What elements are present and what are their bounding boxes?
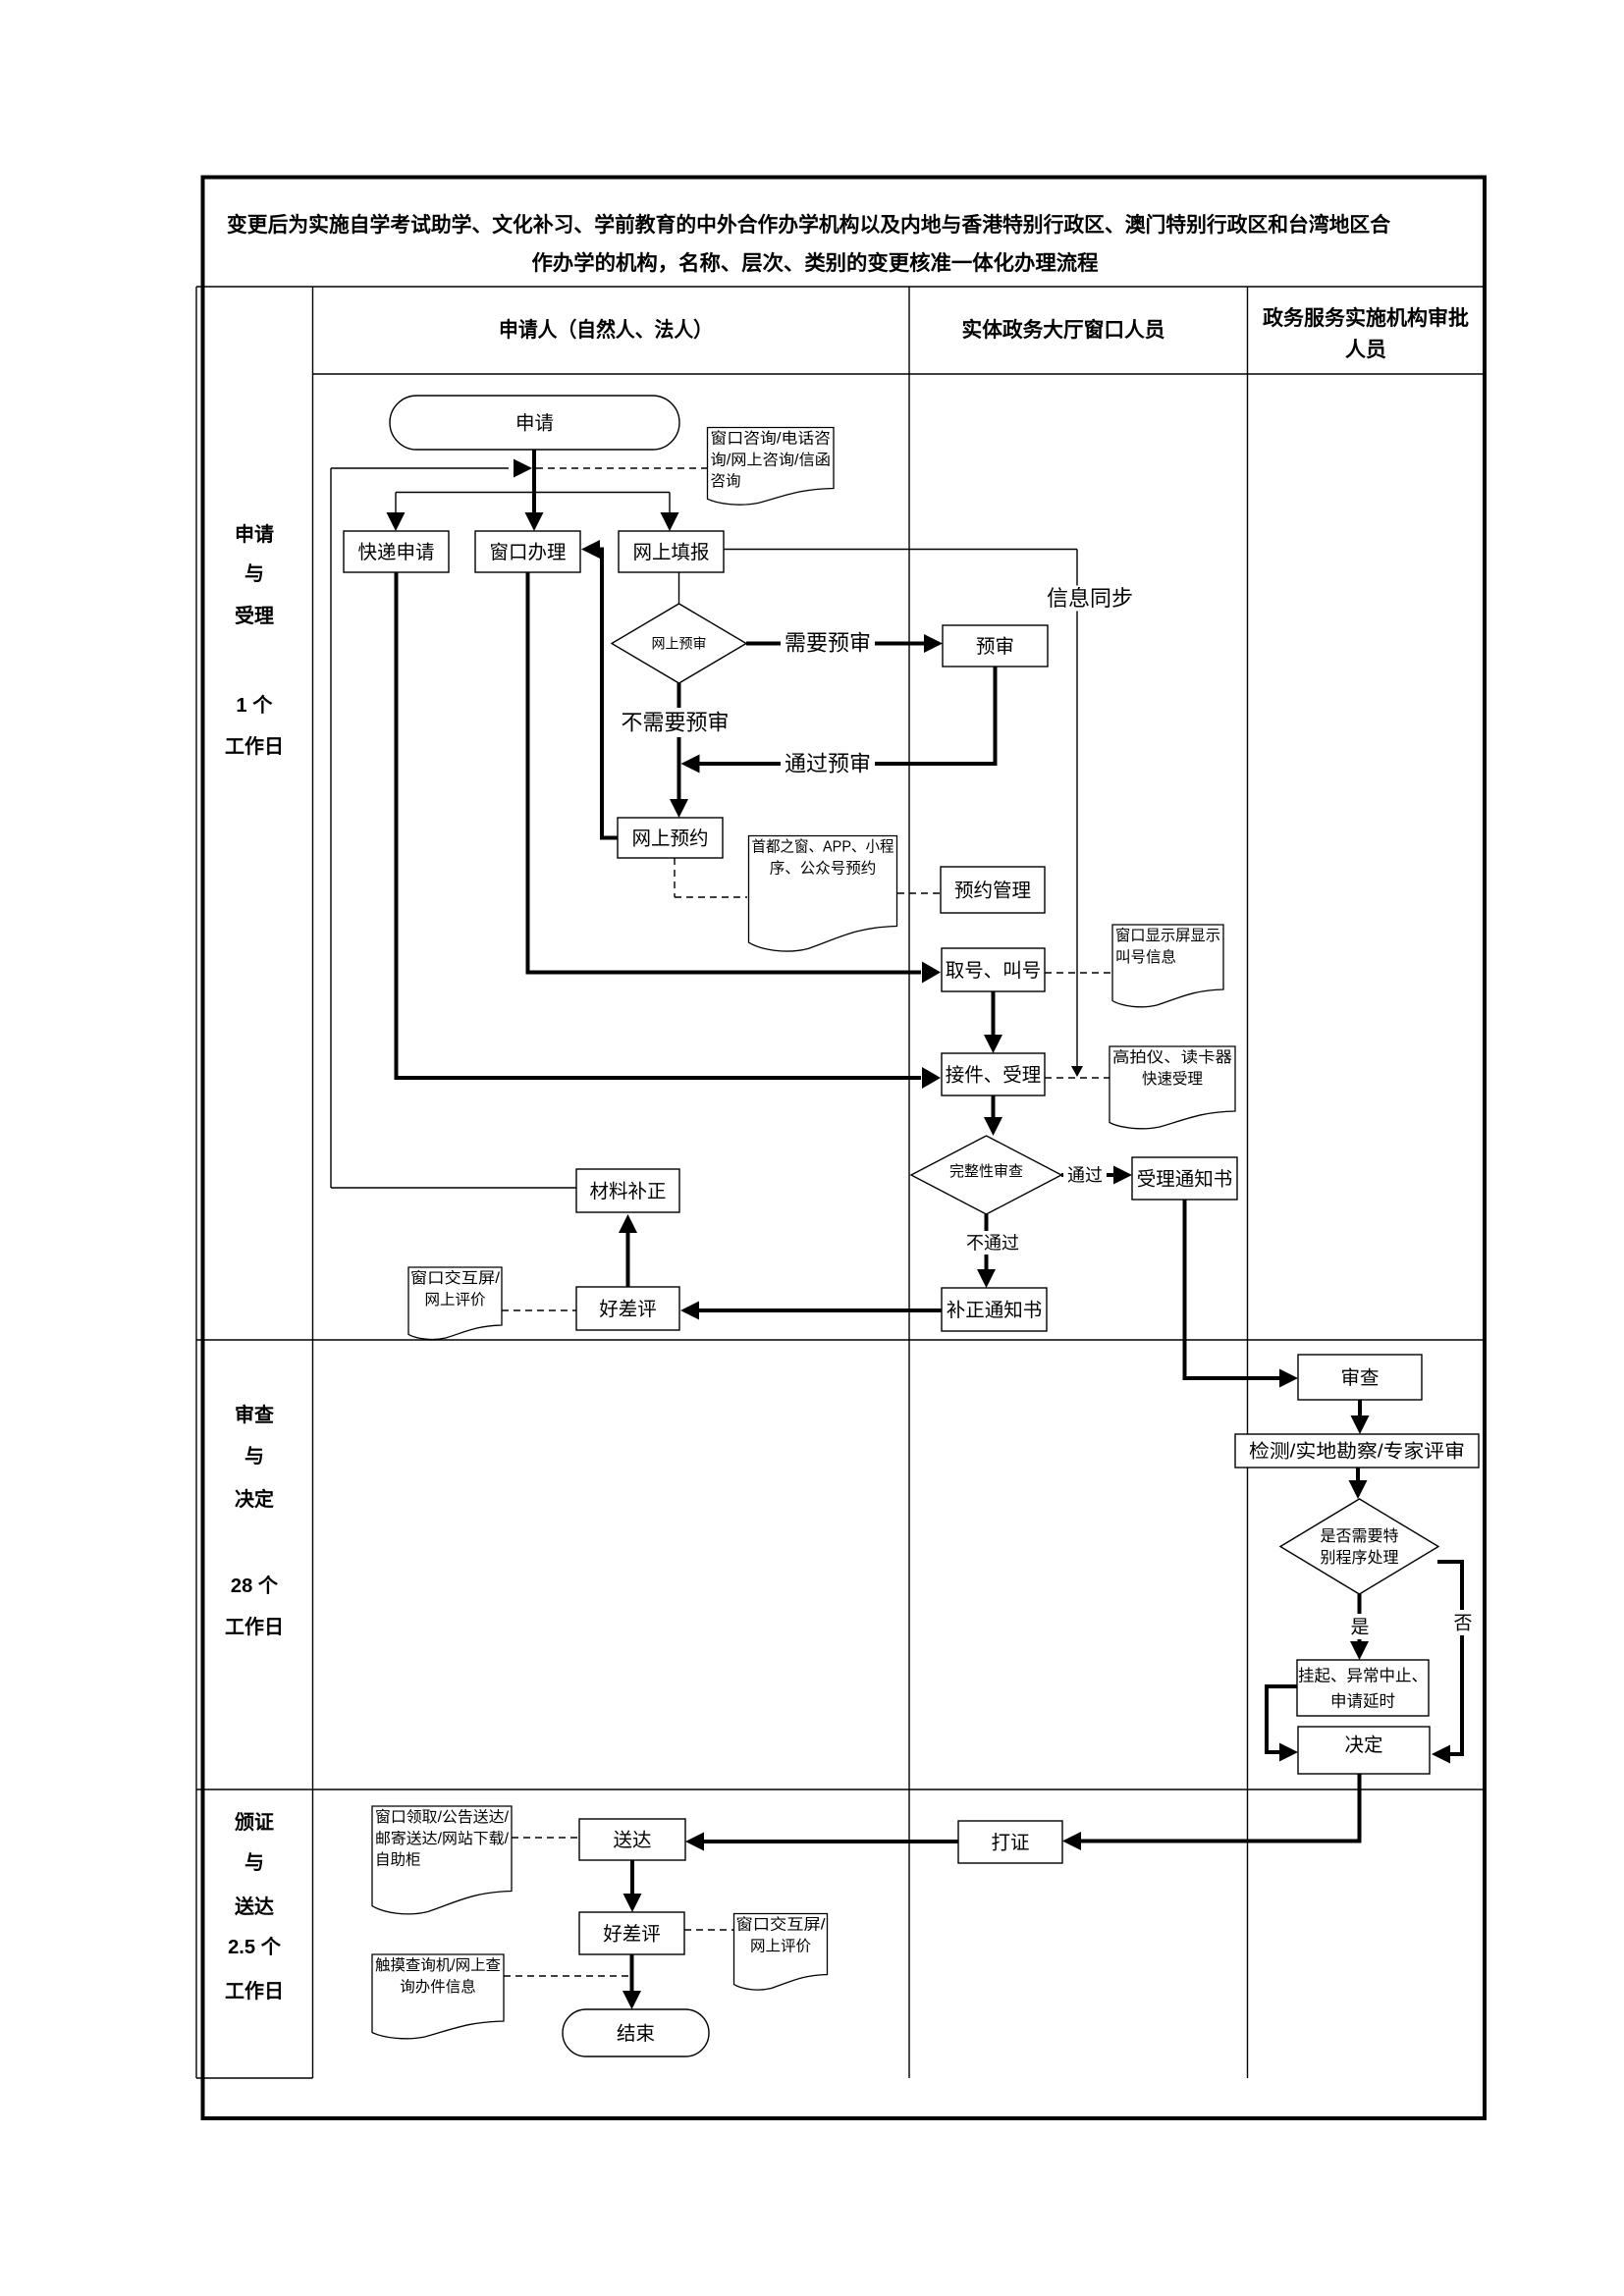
svg-text:窗口显示屏显示: 窗口显示屏显示 [1115,927,1220,944]
svg-text:申请延时: 申请延时 [1330,1691,1395,1710]
process 材料补正 [576,1169,679,1212]
wire: main thick line 申请 -> 窗口办理 [532,450,536,513]
wire: dashed consult line to note [536,467,707,469]
edge label 是 [1348,1614,1372,1639]
wire: dashed 好差评 -> evaluation note [502,1309,576,1311]
svg-text:取号、叫号: 取号、叫号 [946,960,1042,982]
wire: 完整性审查 -> 受理通知书 (通过) [1061,1173,1113,1177]
svg-text:实体政务大厅窗口人员: 实体政务大厅窗口人员 [962,318,1165,342]
svg-text:送达: 送达 [614,1830,652,1851]
svg-text:首都之窗、APP、小程: 首都之窗、APP、小程 [752,838,894,856]
svg-text:触摸查询机/网上查: 触摸查询机/网上查 [375,1956,501,1974]
note 触摸查询机/网上查询办件信息 [372,1954,504,2039]
wire: 送达 -> 好差评 (thick) [630,1860,634,1895]
wire: 挂起 left loop -> 决定 [1267,1686,1297,1752]
svg-text:工作日: 工作日 [225,1615,284,1638]
process 受理通知书 [1132,1157,1237,1200]
svg-text:好差评: 好差评 [599,1299,657,1320]
wire: dashed 网上预约 -> booking note [674,858,676,897]
process 好差评 (acceptance stage) [576,1287,679,1330]
svg-text:通过: 通过 [1067,1165,1103,1185]
wire: 网上预约 -> 窗口办理 (thick elbow with arrow) [599,550,618,838]
decision 完整性审查 [911,1136,1061,1214]
svg-text:咨询: 咨询 [711,472,741,490]
svg-text:快递申请: 快递申请 [358,542,435,563]
wire: dashed 好差评 -> evaluation note 2 [684,1929,733,1931]
process 网上预约 [618,818,723,858]
wire: loop from 材料补正 up-left and into main line [331,467,509,469]
svg-text:快速受理: 快速受理 [1142,1070,1203,1088]
process 补正通知书 [942,1288,1047,1331]
note 窗口交互屏/网上评价 (acceptance) [408,1267,502,1339]
process 决定 [1298,1727,1430,1774]
wire: 网上预审 -> 网上预约 (不需要预审) [677,683,681,800]
svg-text:28 个: 28 个 [231,1575,279,1597]
process 预审 [943,625,1048,667]
svg-text:序、公众号预约: 序、公众号预约 [770,859,877,877]
svg-text:作办学的机构，名称、层次、类别的变更核准一体化办理流程: 作办学的机构，名称、层次、类别的变更核准一体化办理流程 [532,251,1099,275]
svg-text:补正通知书: 补正通知书 [947,1300,1043,1321]
process 审查 [1298,1355,1422,1400]
svg-text:与: 与 [244,1445,264,1468]
edge label 需要预审 [781,629,875,657]
process 预约管理 [941,867,1045,913]
svg-text:窗口办理: 窗口办理 [490,542,567,563]
svg-text:材料补正: 材料补正 [590,1181,667,1202]
note 窗口领取/公告送达/邮寄送达/网站下载/自助柜 [372,1806,512,1914]
svg-text:人员: 人员 [1345,339,1386,361]
svg-text:挂起、异常中止、: 挂起、异常中止、 [1298,1666,1428,1684]
svg-text:窗口交互屏/: 窗口交互屏/ [410,1269,501,1287]
process 窗口办理 [475,531,580,572]
svg-text:2.5 个: 2.5 个 [228,1936,282,1958]
svg-text:高拍仪、读卡器: 高拍仪、读卡器 [1112,1048,1233,1066]
svg-text:网上填报: 网上填报 [633,542,710,563]
wire: 否 branch right elbow down to 决定 [1437,1562,1462,1754]
process 挂起、异常中止、申请延时 [1297,1660,1429,1716]
svg-text:完整性审查: 完整性审查 [949,1163,1023,1180]
process 接件、受理 [942,1053,1045,1095]
table: header/body thin grid [196,286,1483,288]
wire: 预审 -> back to main (通过预审) [699,667,996,764]
svg-text:需要预审: 需要预审 [785,631,871,656]
svg-text:审查: 审查 [1341,1367,1380,1389]
note 窗口咨询/电话咨询/网上咨询/信函咨询 [708,428,835,506]
svg-text:1 个: 1 个 [236,694,273,717]
svg-text:不通过: 不通过 [966,1233,1019,1253]
svg-text:变更后为实施自学考试助学、文化补习、学前教育的中外合作办学机: 变更后为实施自学考试助学、文化补习、学前教育的中外合作办学机构以及内地与香港特别… [227,213,1391,237]
svg-text:决定: 决定 [235,1487,274,1511]
svg-text:送达: 送达 [235,1895,274,1918]
end node 结束 [563,2009,709,2056]
svg-text:网上预约: 网上预约 [632,828,709,849]
svg-text:网上评价: 网上评价 [425,1291,486,1308]
wire: 取号、叫号 -> 接件、受理 (thick) [992,991,996,1036]
wire: 网上预审 -> 预审 (需要预审) [746,642,925,646]
wire: 决定 -> 打证 (thick elbow) [1080,1774,1360,1842]
svg-text:受理通知书: 受理通知书 [1137,1168,1233,1190]
svg-text:检测/实地勘察/专家评审: 检测/实地勘察/专家评审 [1249,1441,1465,1463]
wire: branch line to 快递申请 and 网上填报 [396,492,670,494]
svg-text:颁证: 颁证 [235,1811,274,1834]
wire: dashed 取号、叫号 -> display note [1045,972,1112,974]
svg-text:是: 是 [1351,1618,1370,1638]
svg-text:网上评价: 网上评价 [750,1937,811,1954]
wire: 网上填报 right -> info-sync vertical [724,549,1077,551]
wire: dashed note -> 预约管理 [897,892,941,894]
note 高拍仪、读卡器快速受理 [1110,1046,1235,1129]
note 窗口交互屏/网上评价 (delivery) [734,1914,828,1991]
process 打证 [958,1821,1062,1863]
svg-text:是否需要特: 是否需要特 [1321,1527,1399,1545]
svg-text:申请: 申请 [515,412,554,434]
svg-text:通过预审: 通过预审 [785,752,871,776]
svg-text:申请: 申请 [235,522,274,546]
wire: 好差评 -> 材料补正 (thick) [626,1233,630,1287]
svg-text:与: 与 [244,562,264,585]
start node 申请 [390,396,679,450]
process 好差评 (delivery stage) [579,1912,684,1954]
edge label 不需要预审 [618,708,733,737]
wire: 窗口办理 -> 取号、叫号 (thick) [528,572,922,973]
table: outer thick border [203,178,1486,2119]
svg-text:询/网上咨询/信函: 询/网上咨询/信函 [711,451,832,468]
wire: 补正通知书 -> 好差评 (thick) [698,1308,942,1312]
wire: 打证 -> 送达 (thick) [703,1840,958,1843]
svg-text:预审: 预审 [976,636,1014,658]
svg-text:申请人（自然人、法人）: 申请人（自然人、法人） [499,318,713,342]
svg-text:窗口领取/公告送达/: 窗口领取/公告送达/ [375,1808,510,1826]
wire: 接件、受理 -> 完整性审查 [992,1095,996,1118]
svg-text:叫号信息: 叫号信息 [1115,948,1176,966]
svg-text:工作日: 工作日 [225,734,284,758]
process 送达 [579,1819,685,1860]
svg-text:信息同步: 信息同步 [1047,586,1133,611]
wire: dashed query note -> line to 结束 [504,1975,628,1977]
svg-text:窗口交互屏/: 窗口交互屏/ [736,1916,827,1934]
svg-text:窗口咨询/电话咨: 窗口咨询/电话咨 [711,430,832,448]
wire: 快递申请 -> 接件、受理 (thick) [397,572,922,1078]
edge label 信息同步 [1045,586,1135,612]
process 网上填报 [619,531,724,572]
edge label 否 [1451,1610,1475,1635]
decision 是否需要特别程序处理 [1280,1499,1438,1594]
note 窗口显示屏显示叫号信息 [1112,925,1223,1007]
svg-text:好差评: 好差评 [603,1923,661,1945]
process 取号、叫号 [942,948,1045,991]
svg-text:决定: 决定 [1345,1735,1383,1756]
svg-text:邮寄送达/网站下载/: 邮寄送达/网站下载/ [375,1830,510,1847]
wire: dashed delivery note -> 送达 [512,1837,579,1839]
svg-text:预约管理: 预约管理 [954,880,1031,901]
svg-text:审查: 审查 [235,1403,274,1426]
decision 网上预审 [612,604,746,683]
svg-text:别程序处理: 别程序处理 [1321,1549,1399,1567]
wire: 好差评 -> 结束 (thick) [630,1954,634,1992]
svg-text:询办件信息: 询办件信息 [400,1978,476,1996]
svg-text:接件、受理: 接件、受理 [946,1064,1042,1086]
wire: 网上填报 -> 网上预审 diamond [678,572,680,604]
svg-text:结束: 结束 [617,2023,655,2045]
svg-text:与: 与 [244,1851,264,1874]
wire: 审查 -> 检测 bar [1358,1400,1362,1416]
svg-text:自助柜: 自助柜 [375,1851,421,1869]
edge label 通过预审 [781,750,875,777]
edge label 不通过 [962,1231,1023,1255]
wire: dashed 接件、受理 -> device note [1045,1077,1110,1079]
wire: 是 branch -> 挂起 box [1358,1594,1362,1642]
wire: 受理通知书 -> 审查 (thick) [1185,1200,1281,1378]
svg-text:工作日: 工作日 [225,1979,284,2002]
svg-text:不需要预审: 不需要预审 [622,711,730,735]
process 快递申请 [344,531,449,572]
note 首都之窗、APP、小程序、公众号预约 [749,836,897,952]
svg-text:受理: 受理 [235,604,274,627]
svg-text:政务服务实施机构审批: 政务服务实施机构审批 [1263,306,1469,330]
wire: 完整性审查 -> 补正通知书 (不通过) [985,1214,989,1270]
wire: 检测 bar -> 是否需要特别程序处理 [1356,1468,1360,1481]
edge label 通过 [1063,1162,1107,1188]
process 检测/实地勘察/专家评审 [1235,1434,1479,1468]
svg-text:网上预审: 网上预审 [652,635,707,651]
svg-text:否: 否 [1454,1614,1473,1634]
svg-text:打证: 打证 [992,1832,1030,1853]
